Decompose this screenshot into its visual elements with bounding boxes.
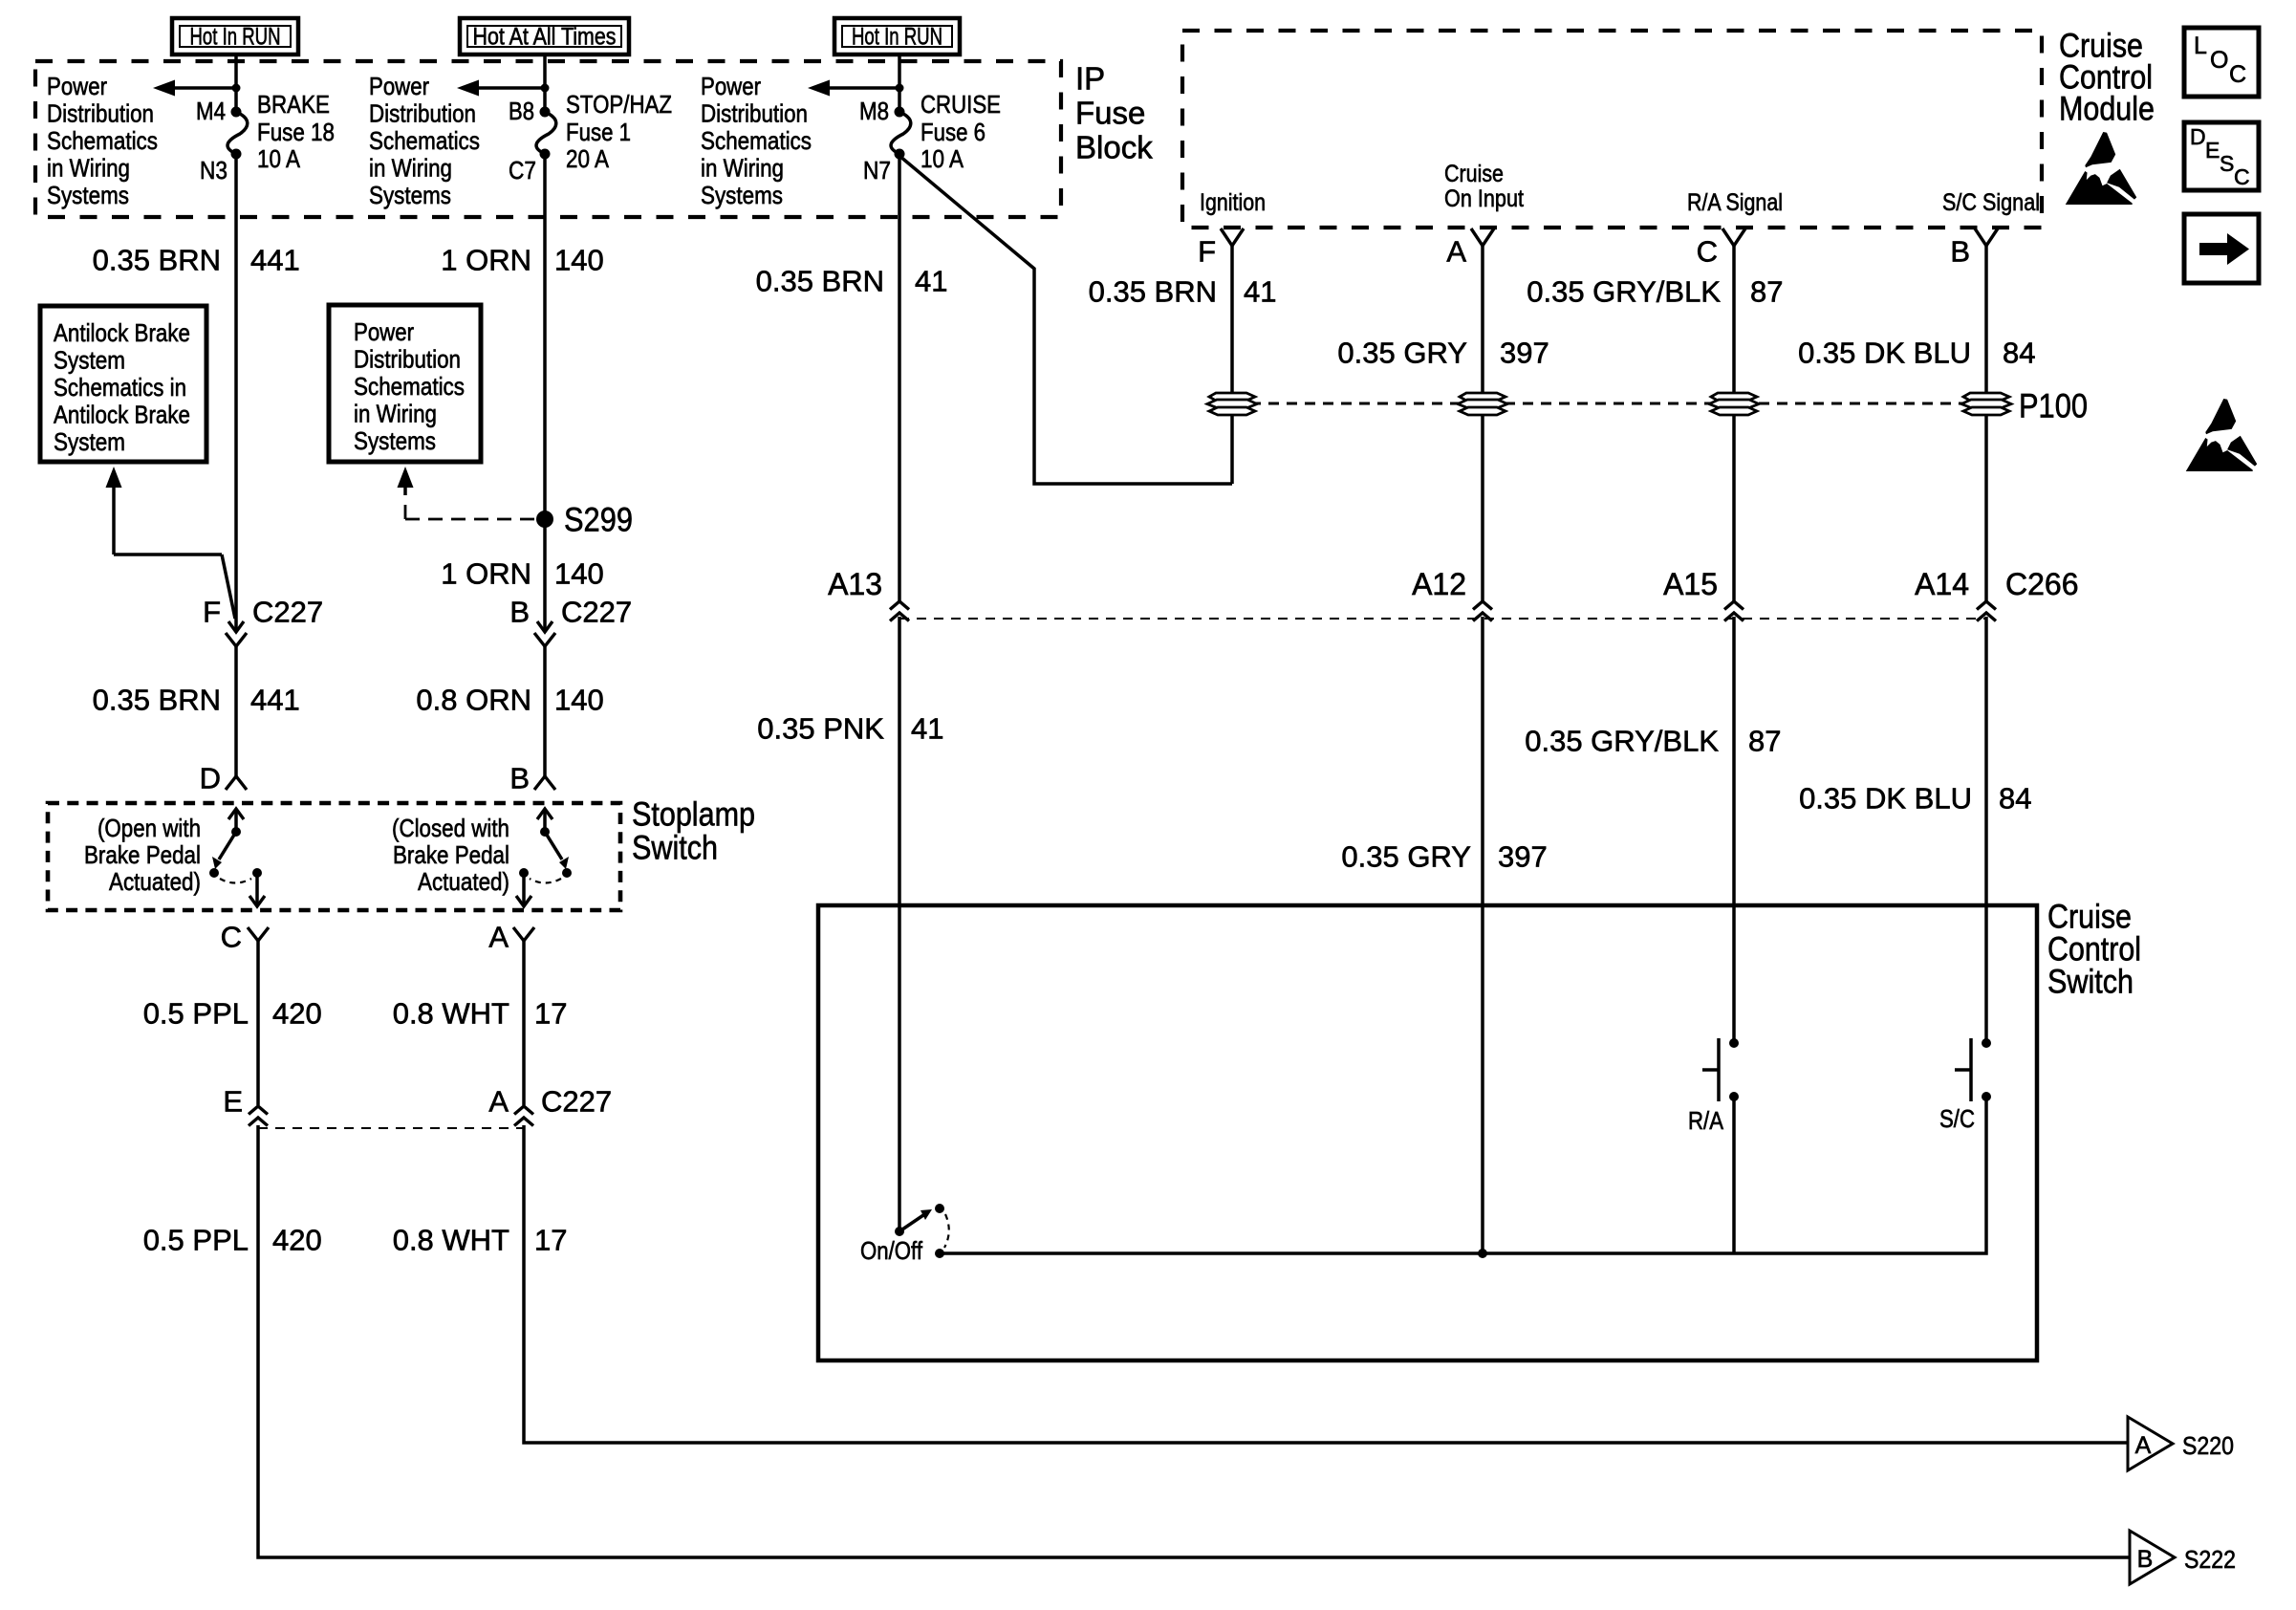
svg-text:S/C Signal: S/C Signal (1942, 189, 2040, 216)
svg-text:Fuse: Fuse (1075, 96, 1145, 131)
svg-text:1 ORN: 1 ORN (441, 557, 531, 591)
svg-text:R/A: R/A (1688, 1106, 1724, 1135)
feed arrow left at CRUISE (808, 80, 904, 97)
svg-text:420: 420 (272, 1224, 322, 1257)
svg-text:S299: S299 (564, 502, 633, 539)
svg-text:441: 441 (250, 244, 300, 277)
svg-text:Fuse 6: Fuse 6 (921, 118, 986, 146)
bus wire from On/Off contact to S/C button (940, 1097, 1986, 1253)
connector row E / A C227 (223, 1085, 612, 1129)
svg-text:Power: Power (47, 72, 107, 100)
svg-text:Stoplamp: Stoplamp (632, 796, 755, 834)
off-page connector A S220 (2128, 1417, 2234, 1470)
wire label 0.35 GRY/BLK 87 (lower) (1525, 725, 1781, 758)
fuse BRAKE Fuse 18 10 A (196, 90, 335, 185)
svg-text:Ignition: Ignition (1200, 189, 1266, 216)
svg-text:F: F (203, 596, 221, 629)
wire STOP/HAZ fuse down through S299 to C227 (543, 154, 547, 632)
svg-text:Brake Pedal: Brake Pedal (84, 840, 201, 869)
svg-text:Distribution: Distribution (47, 99, 154, 128)
wire label 0.35 PNK 41 (757, 712, 943, 746)
svg-text:Hot At All Times: Hot At All Times (473, 24, 617, 51)
header box "Hot In RUN" (center) (834, 18, 960, 54)
svg-text:(Open with: (Open with (97, 814, 201, 842)
svg-text:B: B (1950, 235, 1970, 269)
svg-text:0.8 ORN: 0.8 ORN (416, 684, 531, 717)
svg-text:C266: C266 (2005, 567, 2079, 601)
svg-text:N3: N3 (200, 156, 227, 185)
svg-text:D: D (2190, 124, 2206, 149)
label Cruise Control Switch (2047, 899, 2141, 1001)
svg-text:Schematics: Schematics (701, 126, 812, 155)
svg-text:Power: Power (701, 72, 761, 100)
module pin C (1697, 228, 1745, 269)
svg-text:84: 84 (1999, 782, 2031, 816)
svg-text:L: L (2194, 33, 2207, 59)
svg-text:A12: A12 (1412, 567, 1466, 601)
svg-text:0.35 GRY/BLK: 0.35 GRY/BLK (1527, 275, 1721, 309)
wire label 0.35 GRY 397 (upper) (1337, 337, 1549, 370)
Cruise Control Module dashed box (1182, 31, 2042, 228)
svg-text:Module: Module (2059, 91, 2155, 128)
svg-text:S220: S220 (2182, 1431, 2234, 1460)
module pin A (1446, 228, 1494, 269)
svg-text:C227: C227 (561, 596, 632, 629)
svg-text:A: A (1446, 235, 1466, 269)
box Power Distribution Schematics in Wiring Systems (solid) (329, 305, 481, 462)
text Power Distribution Schematics in Wiring Systems (2) (369, 72, 480, 209)
IP fuse block dashed box (35, 61, 1061, 217)
svg-text:P100: P100 (2019, 388, 2088, 425)
svg-text:Actuated): Actuated) (109, 867, 201, 896)
svg-text:0.35 GRY: 0.35 GRY (1337, 337, 1467, 370)
module pin F (1198, 228, 1244, 269)
svg-text:Systems: Systems (47, 181, 129, 209)
svg-text:Brake Pedal: Brake Pedal (393, 840, 509, 869)
svg-text:0.35 GRY: 0.35 GRY (1341, 840, 1471, 874)
svg-text:0.35 PNK: 0.35 PNK (757, 712, 884, 746)
svg-text:in Wiring: in Wiring (369, 154, 452, 183)
wire header to fuse BRAKE (234, 54, 238, 112)
stoplamp switch 1 (open with brake pedal actuated) (84, 809, 265, 906)
svg-text:in Wiring: in Wiring (354, 400, 437, 428)
svg-text:in Wiring: in Wiring (47, 154, 130, 183)
svg-text:Systems: Systems (369, 181, 451, 209)
S/C pushbutton (1939, 1038, 1991, 1133)
wire GRY down to bus junction (1481, 617, 1484, 1253)
svg-text:41: 41 (1244, 275, 1276, 309)
svg-text:O: O (2210, 47, 2228, 74)
icon box right arrow (2184, 214, 2259, 283)
wire label 0.35 BRN 441 (top) (93, 244, 300, 277)
svg-text:17: 17 (534, 1224, 567, 1257)
svg-text:Schematics: Schematics (369, 126, 480, 155)
svg-text:41: 41 (915, 265, 947, 298)
icon box LOC (2184, 28, 2259, 97)
svg-text:87: 87 (1750, 275, 1783, 309)
wire label 0.35 BRN 441 (mid) (93, 684, 300, 717)
wire label 0.35 BRN 41 (fuse 6 wire) (756, 265, 948, 298)
svg-text:Fuse 18: Fuse 18 (257, 118, 335, 146)
wire with up arrow into Antilock box (106, 467, 236, 619)
svg-text:0.35 BRN: 0.35 BRN (756, 265, 884, 298)
svg-text:S: S (2220, 151, 2234, 176)
junction dot GRY wire on bus (1478, 1249, 1487, 1258)
svg-text:R/A Signal: R/A Signal (1687, 189, 1783, 216)
svg-text:0.5 PPL: 0.5 PPL (143, 1224, 249, 1257)
connector C below stoplamp (221, 921, 269, 1106)
svg-text:Schematics in: Schematics in (54, 373, 186, 402)
connector B C227 (509, 596, 632, 647)
svg-text:C7: C7 (509, 156, 536, 185)
label Cruise Control Module (2059, 28, 2155, 128)
wire label 1 ORN 140 (below S299) (441, 557, 603, 591)
svg-text:A15: A15 (1663, 567, 1718, 601)
svg-text:S222: S222 (2184, 1545, 2236, 1574)
icon box DESC (2184, 122, 2259, 190)
svg-text:A: A (488, 1085, 509, 1119)
svg-text:41: 41 (911, 712, 943, 746)
wire DK BLU down to S/C button (1984, 617, 1988, 1043)
svg-text:Systems: Systems (701, 181, 783, 209)
wire GRY/BLK down to R/A button (1732, 617, 1736, 1043)
svg-text:N7: N7 (863, 156, 891, 185)
svg-text:D: D (200, 762, 221, 795)
wire S/C B down to C266 (1984, 246, 1988, 601)
Cruise Control Switch box (818, 905, 2037, 1360)
header box "Hot In RUN" (left) (172, 18, 298, 54)
svg-text:20 A: 20 A (566, 144, 610, 173)
Stoplamp Switch dashed box (48, 803, 620, 910)
wire WHT down and right to S220 (524, 1125, 2128, 1443)
svg-text:C: C (1697, 235, 1718, 269)
wire cruise-on A down to C266 (1481, 246, 1484, 601)
header box "Hot At All Times" (460, 18, 629, 54)
svg-text:Block: Block (1075, 130, 1153, 165)
svg-text:B: B (509, 762, 530, 795)
svg-text:A14: A14 (1915, 567, 1969, 601)
wire label 0.8 ORN 140 (416, 684, 603, 717)
svg-text:On Input: On Input (1444, 185, 1524, 212)
text Power Distribution Schematics in Wiring Systems (1) (47, 72, 158, 209)
wire label 0.35 GRY 397 (lower) (1341, 840, 1547, 874)
svg-text:140: 140 (554, 684, 604, 717)
svg-text:BRAKE: BRAKE (257, 90, 330, 119)
pin name Cruise On Input (1444, 161, 1524, 212)
svg-text:87: 87 (1748, 725, 1781, 758)
svg-text:Antilock Brake: Antilock Brake (54, 401, 190, 429)
wire PNK down into switch (898, 617, 901, 1231)
svg-text:397: 397 (1498, 840, 1548, 874)
svg-text:A: A (2135, 1432, 2152, 1459)
svg-text:0.35 BRN: 0.35 BRN (93, 684, 221, 717)
svg-text:B: B (509, 596, 530, 629)
svg-text:Schematics: Schematics (354, 372, 465, 401)
wire label 0.35 DK BLU 84 (lower) (1799, 782, 2031, 816)
svg-text:0.35 BRN: 0.35 BRN (1089, 275, 1217, 309)
module pin B (1950, 228, 1998, 269)
svg-text:B8: B8 (509, 97, 534, 125)
svg-text:CRUISE: CRUISE (921, 90, 1001, 119)
svg-text:420: 420 (272, 997, 322, 1031)
svg-text:10 A: 10 A (257, 144, 301, 173)
svg-text:Distribution: Distribution (354, 345, 461, 374)
svg-text:STOP/HAZ: STOP/HAZ (566, 90, 672, 119)
svg-text:(Closed with: (Closed with (392, 814, 509, 842)
svg-text:84: 84 (2003, 337, 2035, 370)
svg-text:Distribution: Distribution (369, 99, 476, 128)
connector A below stoplamp (488, 921, 534, 1106)
svg-text:M8: M8 (859, 97, 889, 125)
svg-text:140: 140 (554, 244, 604, 277)
svg-text:E: E (2205, 138, 2220, 163)
svg-text:S/C: S/C (1939, 1104, 1975, 1133)
wire label 0.8 WHT 17 (lower) (393, 1224, 568, 1257)
wire label 0.5 PPL 420 (lower) (143, 1224, 322, 1257)
svg-text:in Wiring: in Wiring (701, 154, 784, 183)
svg-text:397: 397 (1500, 337, 1549, 370)
wire label 1 ORN 140 (top) (441, 244, 603, 277)
ESD symbol near P100 (2186, 399, 2257, 471)
connector F C227 (203, 596, 323, 647)
wire label 0.8 WHT 17 (upper) (393, 997, 568, 1031)
svg-text:0.8 WHT: 0.8 WHT (393, 997, 509, 1031)
svg-text:0.8 WHT: 0.8 WHT (393, 1224, 509, 1257)
wire BRAKE fuse down to C227 F (234, 154, 238, 632)
feed arrow left at STOP/HAZ (457, 80, 550, 97)
svg-text:Hot In RUN: Hot In RUN (190, 24, 281, 51)
svg-text:E: E (223, 1085, 243, 1119)
svg-text:Power: Power (369, 72, 429, 100)
wire label 0.5 PPL 420 (upper) (143, 997, 322, 1031)
feed arrow left at BRAKE (153, 80, 241, 97)
svg-text:0.35 BRN: 0.35 BRN (93, 244, 221, 277)
wire label 0.35 DK BLU 84 (upper) (1798, 337, 2035, 370)
svg-text:17: 17 (534, 997, 567, 1031)
svg-text:A: A (488, 921, 509, 954)
svg-text:Schematics: Schematics (47, 126, 158, 155)
svg-text:IP: IP (1075, 61, 1105, 97)
svg-text:Power: Power (354, 317, 414, 346)
label IP Fuse Block (1075, 61, 1153, 165)
svg-text:441: 441 (250, 684, 300, 717)
svg-text:C227: C227 (252, 596, 323, 629)
svg-text:B: B (2137, 1546, 2154, 1573)
fuse CRUISE Fuse 6 10 A (859, 90, 1001, 185)
wire header to fuse CRUISE (898, 54, 901, 112)
svg-text:Antilock Brake: Antilock Brake (54, 318, 190, 347)
label Stoplamp Switch (632, 796, 755, 867)
R/A pushbutton (1688, 1038, 1739, 1253)
stoplamp switch 2 (closed with brake pedal actuated) (392, 809, 572, 906)
box Antilock Brake System Schematics in Antilock Brake System (40, 306, 206, 462)
svg-text:Hot In RUN: Hot In RUN (852, 24, 942, 51)
svg-text:F: F (1198, 235, 1216, 269)
off-page connector B S222 (2130, 1531, 2236, 1584)
svg-text:C: C (2234, 164, 2250, 189)
svg-text:Actuated): Actuated) (418, 867, 509, 896)
wire label 0.35 GRY/BLK 87 (upper) (1527, 275, 1783, 309)
svg-text:On/Off: On/Off (860, 1236, 923, 1265)
ESD symbol at module (2066, 132, 2136, 205)
wire F C227 down to stoplamp pin D (200, 646, 247, 795)
wire B C227 down to stoplamp pin B (509, 646, 555, 795)
connector row C266: A13 A12 A15 A14 (828, 567, 2078, 621)
wire R/A C down to C266 (1732, 246, 1736, 601)
svg-text:Switch: Switch (632, 830, 718, 867)
P100 grommet row (1207, 388, 2088, 425)
wire header to fuse STOP/HAZ (543, 54, 547, 112)
text Power Distribution Schematics in Wiring Systems (3) (701, 72, 812, 209)
arrow up into Power box from S299 branch (398, 467, 414, 495)
svg-text:10 A: 10 A (921, 144, 964, 173)
svg-text:C: C (2229, 61, 2246, 88)
fuse STOP/HAZ Fuse 1 20 A (509, 90, 672, 185)
wire branch N7 to ignition feed (899, 156, 1232, 484)
svg-text:1 ORN: 1 ORN (441, 244, 531, 277)
svg-text:0.35 DK BLU: 0.35 DK BLU (1799, 782, 1972, 816)
wire PPL down and right to S222 (258, 1125, 2130, 1557)
wire label 0.35 BRN 41 (ignition) (1089, 275, 1277, 309)
On/Off switch (860, 1204, 949, 1265)
svg-text:140: 140 (554, 557, 604, 591)
svg-text:A13: A13 (828, 567, 882, 601)
svg-text:Fuse 1: Fuse 1 (566, 118, 631, 146)
splice S299 (405, 502, 633, 539)
svg-text:C227: C227 (541, 1085, 612, 1119)
svg-text:Switch: Switch (2047, 964, 2134, 1001)
svg-text:Cruise: Cruise (1444, 161, 1504, 187)
svg-text:System: System (54, 346, 125, 375)
svg-text:Distribution: Distribution (701, 99, 808, 128)
svg-text:M4: M4 (196, 97, 226, 125)
svg-text:C: C (221, 921, 242, 954)
svg-text:0.35 DK BLU: 0.35 DK BLU (1798, 337, 1971, 370)
wire ignition F down to feed corner (1230, 246, 1234, 484)
svg-text:Systems: Systems (354, 426, 436, 455)
svg-text:0.5 PPL: 0.5 PPL (143, 997, 249, 1031)
svg-text:0.35 GRY/BLK: 0.35 GRY/BLK (1525, 725, 1719, 758)
wire CRUISE fuse down to C266 A13 (898, 154, 901, 601)
svg-text:System: System (54, 427, 125, 456)
